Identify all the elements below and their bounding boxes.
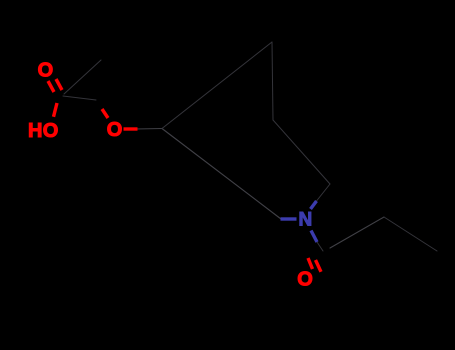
svg-text:O: O [38,60,54,82]
svg-text:O: O [297,268,313,290]
svg-text:O: O [43,120,59,142]
svg-text:O: O [107,119,123,141]
svg-text:N: N [299,210,313,231]
svg-text:H: H [28,120,42,142]
